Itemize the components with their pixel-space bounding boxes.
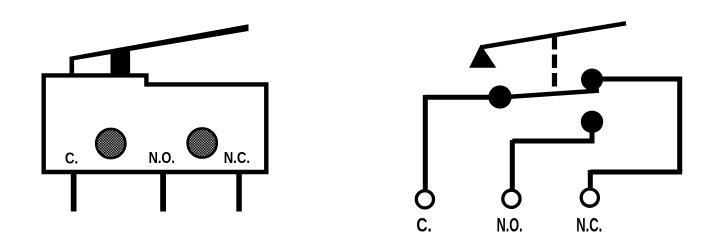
wire from common dot left (425, 95, 500, 100)
svg-text:N.C.: N.C. (224, 150, 250, 167)
terminal circle C (416, 191, 433, 208)
plunger (button) of microswitch (111, 50, 131, 76)
armature (common moving contact) (500, 91, 599, 98)
svg-text:N.O.: N.O. (149, 150, 175, 167)
actuator pivot triangle (469, 45, 496, 68)
terminal pin N.C. (236, 173, 242, 212)
terminal pin C (71, 173, 77, 212)
lever arm (actuator) of microswitch (70, 24, 249, 75)
junction dot at common pivot (488, 85, 511, 108)
wire from N.C. dot right (592, 77, 682, 82)
wire stub from N.O. dot down (590, 122, 595, 144)
svg-text:C.: C. (65, 150, 78, 167)
plunger dashed line (552, 36, 557, 87)
mounting hole (hatched) left (96, 129, 125, 158)
wire N.O. horizontal (512, 139, 594, 144)
wire down right side (677, 77, 682, 173)
wire down to N.C. terminal (588, 170, 593, 188)
wire down to C terminal (423, 95, 428, 189)
mounting hole (hatched) right (188, 128, 217, 157)
wire bottom horizontal to N.C. (590, 170, 682, 175)
svg-text:N.C.: N.C. (576, 215, 602, 236)
junction dot N.C. contact (581, 69, 603, 91)
wire down to N.O. terminal (510, 140, 515, 189)
terminal circle N.C. (581, 189, 598, 206)
junction dot N.O. contact (581, 111, 603, 133)
svg-text:C.: C. (416, 215, 431, 236)
actuator lever line (schematic) (481, 23, 626, 47)
switch body outline (stepped box) (44, 75, 267, 172)
terminal pin N.O. (160, 173, 166, 212)
svg-text:N.O.: N.O. (497, 215, 523, 236)
terminal circle N.O. (503, 190, 520, 207)
